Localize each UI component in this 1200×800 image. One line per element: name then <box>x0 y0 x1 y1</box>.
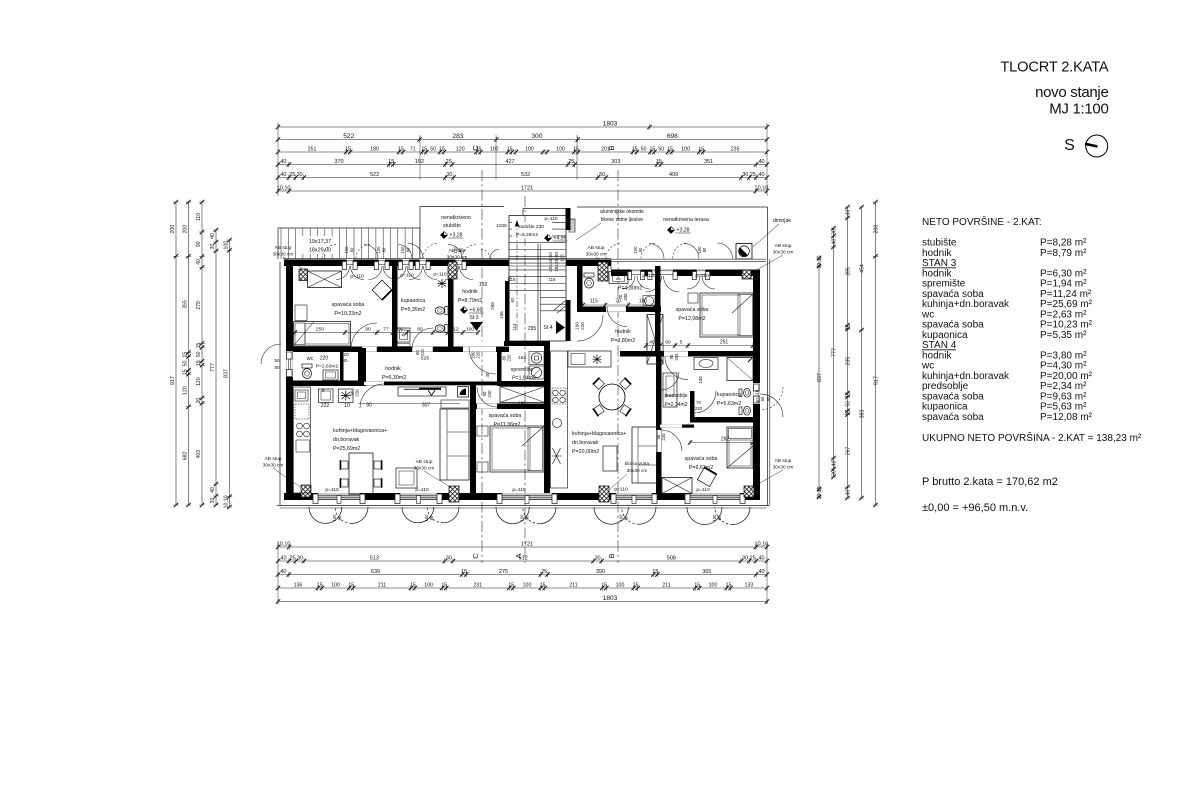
svg-text:spavaća soba: spavaća soba <box>489 413 522 419</box>
svg-text:30: 30 <box>594 555 600 561</box>
wall kupaonica/hodnik879 <box>448 266 454 349</box>
svg-text:303: 303 <box>611 159 620 165</box>
svg-text:10,10: 10,10 <box>755 541 769 547</box>
svg-text:p=110: p=110 <box>350 274 364 280</box>
svg-text:80: 80 <box>275 365 280 370</box>
svg-text:P=5,63m2: P=5,63m2 <box>717 401 741 407</box>
inner dim row kitchen <box>358 403 460 405</box>
dimension row 1721 bottom <box>278 546 767 548</box>
svg-text:211: 211 <box>569 582 577 588</box>
svg-text:dimnjak: dimnjak <box>773 218 791 224</box>
svg-text:40: 40 <box>759 172 765 178</box>
left wall <box>286 260 293 501</box>
svg-text:370: 370 <box>334 159 343 165</box>
svg-text:B: B <box>607 553 616 558</box>
svg-text:P=5,35 m²: P=5,35 m² <box>1040 330 1087 341</box>
wall wc/bedroom1208 <box>655 266 661 351</box>
kitchen counter left <box>294 387 311 493</box>
svg-text:A: A <box>514 553 523 558</box>
stair strip window arcs <box>322 245 336 259</box>
svg-text:wc: wc <box>307 356 314 362</box>
sofa stan3 <box>440 409 469 480</box>
bedroom 11,36 top wall <box>470 404 545 410</box>
door arc kitchen <box>360 384 384 408</box>
svg-text:220: 220 <box>695 406 703 411</box>
svg-text:30x30 cm: 30x30 cm <box>627 468 648 474</box>
svg-text:30: 30 <box>446 172 452 178</box>
svg-text:200: 200 <box>623 293 628 301</box>
svg-text:50: 50 <box>183 360 189 366</box>
svg-text:383: 383 <box>860 410 866 419</box>
svg-text:120: 120 <box>183 386 189 395</box>
bottom wall <box>284 493 760 500</box>
svg-text:100: 100 <box>400 246 405 254</box>
bedroom 12,08 bottom wall <box>620 351 753 357</box>
svg-text:P=11,36m2: P=11,36m2 <box>494 422 521 428</box>
kupaonica4 bottom wall <box>690 417 753 423</box>
svg-text:nenatkriveno: nenatkriveno <box>441 215 471 221</box>
svg-text:80: 80 <box>405 247 410 252</box>
svg-text:40: 40 <box>357 372 362 378</box>
svg-text:251: 251 <box>308 146 317 152</box>
svg-text:698: 698 <box>667 133 678 140</box>
svg-text:P=1,94m2: P=1,94m2 <box>512 376 536 382</box>
stair labels <box>512 222 552 238</box>
svg-text:40: 40 <box>832 460 838 466</box>
svg-text:40: 40 <box>759 159 765 165</box>
svg-text:390: 390 <box>596 569 605 575</box>
door arc hodnik879 <box>469 347 496 374</box>
top wall right section (bedroom) <box>611 270 757 277</box>
svg-text:513: 513 <box>370 555 379 561</box>
svg-text:+6,60: +6,60 <box>469 308 482 314</box>
svg-text:25: 25 <box>568 159 574 165</box>
svg-text:837: 837 <box>817 373 823 382</box>
svg-text:82: 82 <box>510 297 515 302</box>
svg-text:77: 77 <box>383 327 389 333</box>
svg-text:10,10: 10,10 <box>224 495 230 508</box>
box window arcs <box>408 244 423 259</box>
svg-text:71: 71 <box>410 146 416 152</box>
svg-text:120: 120 <box>196 377 202 386</box>
closet under stairs <box>500 387 545 403</box>
svg-text:80: 80 <box>429 515 434 520</box>
svg-text:P=8,28m2: P=8,28m2 <box>516 232 538 238</box>
svg-text:18x29,00: 18x29,00 <box>309 248 331 254</box>
axis B dashed <box>617 170 619 563</box>
svg-text:kuhinja+dn.boravak: kuhinja+dn.boravak <box>922 299 1010 310</box>
svg-text:114: 114 <box>512 323 517 331</box>
svg-text:100: 100 <box>224 241 230 250</box>
stair arrow <box>516 224 518 330</box>
svg-text:220: 220 <box>487 390 492 398</box>
closet spavaca1023 <box>308 271 342 288</box>
svg-text:1803: 1803 <box>603 120 618 127</box>
wc stan4 walls <box>577 266 583 312</box>
svg-text:P=10,23m2: P=10,23m2 <box>334 311 361 317</box>
dimension row fine bottom <box>278 587 767 589</box>
svg-text:80: 80 <box>349 247 354 252</box>
svg-text:30: 30 <box>599 172 605 178</box>
svg-text:spremište: spremište <box>511 367 534 373</box>
svg-text:100: 100 <box>616 582 625 588</box>
left dim col 30,40/777 <box>215 230 217 505</box>
svg-text:80: 80 <box>342 358 348 363</box>
svg-text:295: 295 <box>528 326 537 332</box>
sofa stan4 <box>632 427 657 483</box>
svg-text:837: 837 <box>224 369 230 378</box>
svg-text:hodnik: hodnik <box>385 366 401 372</box>
svg-text:40: 40 <box>759 569 765 575</box>
svg-text:p=110: p=110 <box>696 487 710 493</box>
svg-text:100: 100 <box>331 582 340 588</box>
svg-text:C: C <box>471 553 480 559</box>
svg-text:p=110: p=110 <box>755 389 760 402</box>
svg-text:St 4: St 4 <box>543 325 552 331</box>
svg-text:200: 200 <box>874 225 880 234</box>
svg-text:P=5,35m2: P=5,35m2 <box>401 307 425 313</box>
svg-text:40: 40 <box>210 233 216 239</box>
svg-text:351: 351 <box>704 159 713 165</box>
svg-text:777: 777 <box>832 348 838 357</box>
right outside arc <box>760 387 783 410</box>
svg-text:25: 25 <box>750 555 756 561</box>
wc stan4 fixtures <box>584 273 594 277</box>
svg-text:80: 80 <box>766 396 771 401</box>
svg-text:B: B <box>607 145 616 150</box>
svg-text:kupaonica: kupaonica <box>401 298 425 304</box>
svg-text:499: 499 <box>669 172 678 178</box>
svg-text:30x30 cm: 30x30 cm <box>773 250 794 256</box>
inward window arcs top wall <box>336 266 350 280</box>
svg-text:115: 115 <box>590 299 598 305</box>
closet bedroom 9,63 <box>662 478 692 494</box>
closet stan4 hall <box>647 315 663 365</box>
svg-text:80: 80 <box>417 327 423 333</box>
svg-text:nenatkrivena terasa: nenatkrivena terasa <box>663 217 709 223</box>
wc stub wall <box>358 348 366 386</box>
svg-text:±0,00 = +96,50 m.n.v.: ±0,00 = +96,50 m.n.v. <box>922 502 1028 514</box>
svg-text:1721: 1721 <box>521 541 533 547</box>
svg-text:73: 73 <box>507 276 512 281</box>
stair walls thick bits <box>505 281 510 341</box>
svg-text:300: 300 <box>532 133 543 140</box>
svg-text:stubište: stubište <box>443 223 461 229</box>
svg-text:403: 403 <box>196 450 202 459</box>
svg-text:40: 40 <box>280 159 286 165</box>
svg-text:90: 90 <box>665 340 671 346</box>
predsoblje cabinet <box>663 373 677 407</box>
svg-text:50: 50 <box>658 146 664 152</box>
svg-text:30: 30 <box>446 555 452 561</box>
bed bedroom 9,63 <box>727 427 753 468</box>
svg-text:192: 192 <box>415 159 424 165</box>
inner dim row stan4 wc <box>583 304 655 306</box>
door arc predsoblje entry <box>661 372 679 390</box>
svg-text:30: 30 <box>742 555 748 561</box>
svg-text:80: 80 <box>525 515 530 520</box>
svg-text:AB stup: AB stup <box>775 243 792 249</box>
top wall left section <box>283 258 611 260</box>
wc walls <box>340 352 344 382</box>
right dim col 837 eaves <box>818 258 820 497</box>
svg-text:10,10: 10,10 <box>755 185 769 191</box>
svg-text:40: 40 <box>210 487 216 493</box>
svg-text:532: 532 <box>521 172 530 178</box>
svg-text:stubište 230: stubište 230 <box>518 224 544 230</box>
TV bench <box>398 387 446 396</box>
wall spavaca/kupaonica <box>392 266 398 349</box>
right dim col 454/917 <box>861 207 863 498</box>
svg-text:365: 365 <box>702 569 711 575</box>
svg-text:NETO POVRŠINE - 2.KAT:: NETO POVRŠINE - 2.KAT: <box>922 215 1042 228</box>
AB stup columns <box>299 269 308 281</box>
outdoor stair strip <box>278 227 420 229</box>
svg-text:30: 30 <box>297 555 303 561</box>
svg-text:205: 205 <box>674 353 679 361</box>
svg-text:110: 110 <box>196 213 202 221</box>
terrace window arcs <box>606 244 621 259</box>
svg-text:250: 250 <box>316 327 324 333</box>
svg-text:231: 231 <box>473 582 482 588</box>
svg-text:40: 40 <box>280 172 286 178</box>
svg-text:40: 40 <box>832 239 838 245</box>
svg-text:p=110: p=110 <box>415 487 429 493</box>
svg-text:639: 639 <box>371 569 380 575</box>
svg-text:UKUPNO NETO POVRŠINA - 2.KAT =: UKUPNO NETO POVRŠINA - 2.KAT = 138,23 m² <box>922 431 1142 444</box>
nenatkriveno stubiste box <box>419 207 421 260</box>
svg-text:30x30 cm: 30x30 cm <box>586 252 607 258</box>
svg-text:30: 30 <box>832 470 838 476</box>
svg-text:522: 522 <box>370 172 379 178</box>
dimension row 40,25,30/522/30/532... <box>278 177 767 179</box>
svg-text:dn.boravak: dn.boravak <box>572 440 599 446</box>
svg-text:spavaća soba: spavaća soba <box>922 412 984 423</box>
svg-text:kuhinja+blagovaonica+: kuhinja+blagovaonica+ <box>333 428 387 434</box>
svg-text:40: 40 <box>280 569 286 575</box>
svg-text:1803: 1803 <box>603 595 618 602</box>
dimension row 1721 top <box>278 190 767 192</box>
svg-text:100: 100 <box>376 246 381 254</box>
dining table stan3 <box>349 453 373 494</box>
central staircase outline <box>509 216 566 342</box>
apartment divider wall <box>544 341 550 493</box>
svg-text:917: 917 <box>170 376 176 385</box>
svg-text:12: 12 <box>453 327 459 333</box>
svg-text:50: 50 <box>846 401 852 407</box>
stair bottom wall <box>504 341 548 346</box>
svg-text:220: 220 <box>507 354 512 362</box>
svg-text:30: 30 <box>210 243 216 249</box>
svg-text:25: 25 <box>289 172 295 178</box>
svg-text:220: 220 <box>355 389 360 397</box>
dimension row 1803 top <box>278 126 767 128</box>
svg-text:P=6,30m2: P=6,30m2 <box>382 375 406 381</box>
svg-text:682: 682 <box>183 451 189 460</box>
svg-text:120: 120 <box>456 146 465 152</box>
svg-text:30x30 cm: 30x30 cm <box>773 465 794 471</box>
svg-text:522: 522 <box>343 133 354 140</box>
svg-text:279: 279 <box>196 301 202 310</box>
svg-text:30: 30 <box>832 229 838 235</box>
svg-text:40: 40 <box>758 555 764 561</box>
svg-text:5: 5 <box>680 340 683 346</box>
ladder <box>569 219 575 232</box>
svg-text:aluminijske okomite: aluminijske okomite <box>600 209 644 215</box>
svg-text:90: 90 <box>196 241 202 247</box>
svg-text:100: 100 <box>424 582 433 588</box>
svg-text:50: 50 <box>196 351 202 357</box>
svg-text:p=110: p=110 <box>614 487 628 493</box>
svg-text:268: 268 <box>490 302 495 310</box>
svg-text:80: 80 <box>458 247 463 252</box>
inner dim row bedroom1208 <box>646 345 753 347</box>
svg-text:25: 25 <box>750 172 756 178</box>
svg-text:90: 90 <box>760 396 765 401</box>
fan symbol kupaonica <box>438 279 447 288</box>
svg-text:30x30 cm: 30x30 cm <box>263 463 284 469</box>
door arc kupaonica <box>412 328 433 349</box>
right dim col 30,40/777 <box>833 228 835 477</box>
dimension row 639/275/390/365 bottom <box>278 574 767 576</box>
svg-text:165: 165 <box>560 254 565 262</box>
bedroom963 top wall thin <box>658 425 694 428</box>
svg-text:40: 40 <box>846 490 852 496</box>
svg-text:30x30 cm: 30x30 cm <box>447 255 468 261</box>
svg-text:25: 25 <box>289 555 295 561</box>
svg-text:+4,95: +4,95 <box>553 236 566 242</box>
tilted chair <box>372 280 392 300</box>
inner dim row bedroom963 <box>690 442 753 444</box>
svg-text:kuhinja+blagovaonica+: kuhinja+blagovaonica+ <box>572 431 626 437</box>
svg-text:180: 180 <box>370 146 379 152</box>
svg-text:kupaonica: kupaonica <box>717 392 741 398</box>
svg-text:MJ 1:100: MJ 1:100 <box>1049 101 1108 118</box>
svg-text:20: 20 <box>196 398 202 404</box>
svg-text:100: 100 <box>681 146 690 152</box>
left dim col 110/90/... <box>201 202 203 505</box>
svg-text:novo stanje: novo stanje <box>1035 84 1108 101</box>
svg-text:251: 251 <box>720 340 729 346</box>
svg-text:220: 220 <box>320 356 329 362</box>
svg-text:50: 50 <box>430 146 436 152</box>
svg-text:211: 211 <box>378 582 386 588</box>
svg-text:100: 100 <box>523 582 532 588</box>
dimension row 40/370/... <box>278 164 767 166</box>
svg-text:220: 220 <box>420 348 425 356</box>
right dim col 200/917 <box>875 202 877 505</box>
svg-text:St 3: St 3 <box>469 315 478 321</box>
svg-text:777: 777 <box>210 363 216 372</box>
svg-text:115: 115 <box>549 277 556 282</box>
spremiste walls <box>497 347 502 386</box>
svg-text:196: 196 <box>499 311 504 319</box>
svg-text:C: C <box>471 145 480 151</box>
svg-text:wc: wc <box>616 277 621 281</box>
svg-text:p=110: p=110 <box>512 487 526 493</box>
svg-text:235: 235 <box>846 357 852 366</box>
coffee table stan4 <box>603 446 617 471</box>
svg-text:100: 100 <box>709 582 718 588</box>
svg-text:307: 307 <box>422 403 431 409</box>
svg-text:spavaća soba: spavaća soba <box>676 307 709 313</box>
svg-text:AB stup: AB stup <box>775 458 792 464</box>
black wedge box <box>458 387 469 398</box>
svg-text:p=110: p=110 <box>544 216 557 222</box>
svg-text:30: 30 <box>742 172 748 178</box>
svg-text:hodnik: hodnik <box>615 329 631 335</box>
svg-text:222: 222 <box>321 403 330 409</box>
left dim col 200/355/... <box>188 202 190 505</box>
stair treads lower right flight <box>540 297 565 299</box>
svg-text:P=3,80m2: P=3,80m2 <box>611 338 635 344</box>
svg-text:275: 275 <box>499 569 508 575</box>
svg-text:100: 100 <box>525 146 534 152</box>
right dim col 40/395/... <box>847 207 849 498</box>
square table <box>396 468 417 488</box>
nightstand spavaca1023 <box>295 305 307 321</box>
bottom facade arcs <box>309 507 325 523</box>
svg-text:p=110: p=110 <box>325 487 339 493</box>
kitchen stan4 <box>551 351 568 488</box>
dimension row fine top <box>278 151 767 153</box>
svg-text:30x30 cm: 30x30 cm <box>273 252 294 258</box>
wall predsoblje/kupaonica <box>690 391 695 417</box>
svg-text:AB stup: AB stup <box>416 459 433 465</box>
svg-text:200: 200 <box>170 225 176 234</box>
svg-text:P=25,69m2: P=25,69m2 <box>333 446 360 452</box>
svg-text:P=8,79m2: P=8,79m2 <box>458 298 482 304</box>
svg-text:80: 80 <box>702 247 707 252</box>
svg-text:100: 100 <box>453 246 458 254</box>
svg-text:70: 70 <box>696 400 701 405</box>
svg-text:P=2,63m2: P=2,63m2 <box>316 364 339 370</box>
svg-text:100: 100 <box>490 146 499 152</box>
left dim col 200/917 <box>175 202 177 505</box>
axis A dashed <box>524 196 526 563</box>
svg-text:p=110: p=110 <box>642 273 656 279</box>
svg-text:220: 220 <box>476 351 481 359</box>
svg-text:220: 220 <box>580 322 585 330</box>
hodnik 6,30 bottom wall <box>358 382 497 386</box>
bed bedroom 12,08 <box>700 293 754 337</box>
door arc bedroom1208 <box>665 357 688 380</box>
svg-text:dn.boravak: dn.boravak <box>333 437 360 443</box>
wall living4/predsoblje <box>656 351 662 493</box>
wc room fixtures <box>302 364 312 368</box>
svg-text:136: 136 <box>294 582 303 588</box>
svg-text:klizna vrata: klizna vrata <box>625 461 650 467</box>
svg-text:10,10: 10,10 <box>277 541 291 547</box>
svg-text:50: 50 <box>641 146 647 152</box>
bed bedroom 11,36 <box>490 426 544 472</box>
svg-text:AB stup: AB stup <box>275 245 292 251</box>
svg-text:p=110: p=110 <box>433 272 447 278</box>
svg-text:56: 56 <box>397 327 403 333</box>
wall living/bedroom1136 <box>470 383 476 493</box>
svg-text:+3,28: +3,28 <box>676 228 689 234</box>
svg-text:spavaća soba: spavaća soba <box>685 456 718 462</box>
svg-text:P brutto 2.kata = 170,62 m2: P brutto 2.kata = 170,62 m2 <box>922 476 1058 488</box>
svg-text:192: 192 <box>479 282 488 288</box>
appliance row kitchen top <box>319 389 334 403</box>
dimension row 513/512/508 bottom <box>278 560 767 562</box>
eaves outline <box>279 262 281 505</box>
spremiste appliances <box>529 352 544 365</box>
inner dim row spavaca <box>293 332 478 334</box>
svg-text:TLOCRT 2.KATA: TLOCRT 2.KATA <box>1000 60 1108 76</box>
svg-text:90: 90 <box>365 327 371 333</box>
